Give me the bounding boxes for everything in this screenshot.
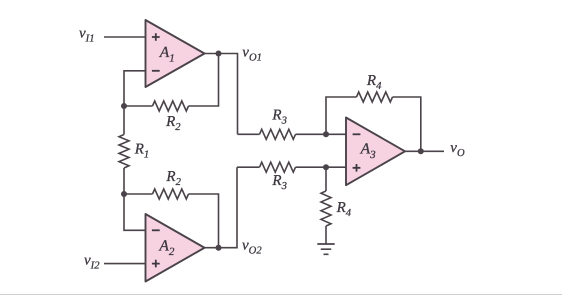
wire R3b to A3 + input [296, 166, 347, 168]
resistor R4 (to ground) [321, 191, 331, 226]
wire R1 bottom to node C [123, 168, 125, 194]
wire vI1 lead to A1 + input [104, 36, 145, 38]
svg-text:R1: R1 [134, 142, 149, 161]
svg-text:vI1: vI1 [79, 25, 95, 44]
wire R3a to A3 - input [296, 133, 347, 135]
resistor R2 (bottom feedback) [153, 189, 189, 199]
wire node E down to R4b top [325, 167, 327, 191]
bottom rule [0, 294, 562, 295]
svg-text:R2: R2 [165, 169, 181, 188]
wire vO1 corner to R3a [238, 133, 260, 135]
op-amp A2 pin signs and name [152, 229, 160, 231]
node D junction (A3 - input) [323, 131, 329, 137]
svg-text:R3: R3 [271, 173, 286, 192]
node vO2 junction [216, 245, 222, 251]
wire A2 output to vO2 corner up to R3b [204, 167, 237, 248]
op-amp A1 [146, 20, 205, 87]
svg-text:vO2: vO2 [242, 237, 262, 256]
wire node C to R2b left [124, 193, 153, 195]
resistor R3 (bottom) [260, 162, 296, 172]
wire node B to R2a left [124, 105, 153, 107]
svg-text:vI2: vI2 [84, 253, 100, 272]
wire R4a right down to output node [393, 97, 421, 151]
wire node B down to R1 top [123, 106, 125, 135]
svg-text:vO: vO [450, 140, 465, 159]
node C junction [121, 191, 127, 197]
ground [317, 244, 334, 254]
node B junction [121, 103, 127, 109]
op-amp A3 [346, 118, 405, 186]
node vO junction [418, 148, 424, 154]
resistor R1 [119, 135, 129, 169]
resistor R3 (top) [260, 129, 296, 139]
wire A2 - input to node C [124, 194, 145, 230]
svg-text:R4: R4 [336, 200, 352, 219]
wire vO2 corner to R3b [237, 166, 260, 168]
wire R2a right up to vO1 node [189, 54, 219, 107]
op-amp A3 pin signs and name [353, 133, 361, 135]
resistor R2 (top feedback) [153, 101, 189, 111]
svg-text:R3: R3 [271, 107, 286, 126]
wire R4b bottom to ground [325, 226, 327, 244]
svg-text:R2: R2 [165, 114, 181, 133]
wire A1 - input to node B [124, 71, 145, 106]
wire vI2 lead to A2 + input [104, 263, 145, 265]
node E junction (A3 + input) [323, 164, 329, 170]
wire R2b right down to vO2 node [189, 194, 219, 248]
op-amp A1 pin signs and name [152, 33, 160, 41]
svg-text:vO1: vO1 [242, 45, 262, 64]
wire node D up to R4a left [326, 97, 357, 134]
op-amp A2 [146, 214, 205, 282]
svg-text:R4: R4 [366, 73, 382, 92]
wire A1 output to vO1 corner down to R3a [204, 54, 238, 135]
wire A3 output to vO [405, 150, 444, 152]
node vO1 junction [216, 51, 222, 57]
resistor R4 (feedback) [357, 92, 393, 102]
